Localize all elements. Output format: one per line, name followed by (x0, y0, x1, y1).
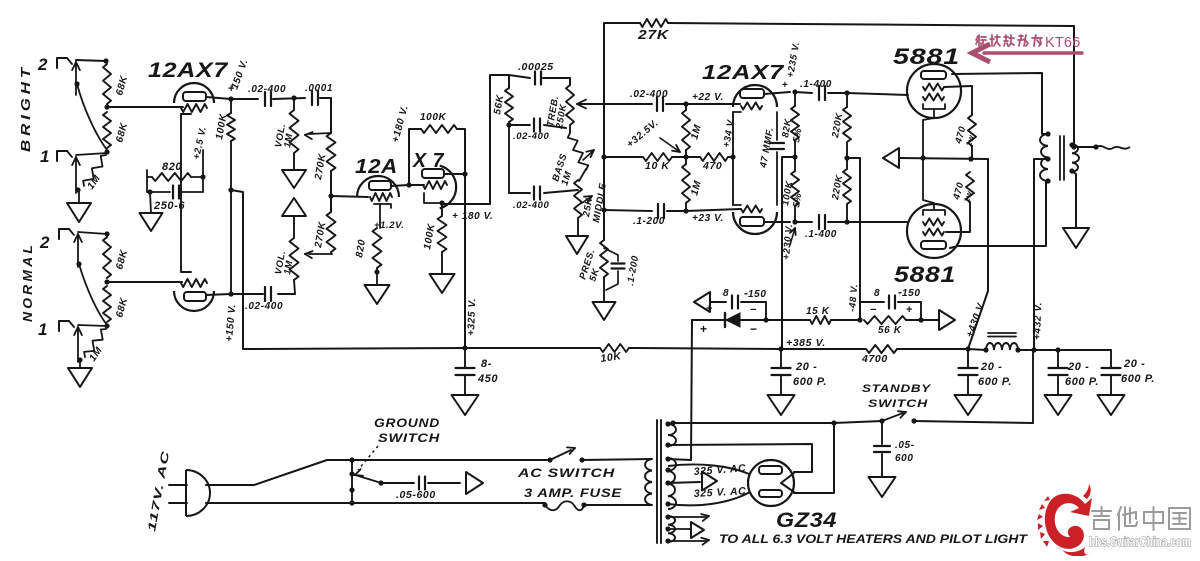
svg-text:600 P.: 600 P. (1065, 376, 1099, 388)
svg-text:.1-400: .1-400 (805, 229, 837, 240)
svg-text:27K: 27K (637, 28, 670, 42)
svg-text:+: + (782, 80, 788, 91)
svg-text:−: − (750, 322, 758, 336)
svg-text:8: 8 (874, 288, 880, 299)
svg-text:.1-200: .1-200 (633, 216, 665, 227)
svg-text:470: 470 (702, 160, 722, 172)
svg-text:150: 150 (748, 289, 767, 300)
svg-text:GZ34: GZ34 (776, 509, 837, 532)
svg-text:+22 V.: +22 V. (692, 92, 724, 103)
svg-text:600: 600 (895, 453, 914, 464)
svg-text:8-: 8- (481, 358, 492, 370)
svg-text:.02-400: .02-400 (513, 131, 550, 142)
svg-text:GROUND: GROUND (374, 418, 440, 430)
svg-text:150: 150 (902, 288, 921, 299)
svg-text:20 -: 20 - (795, 361, 817, 373)
svg-text:1: 1 (40, 147, 50, 166)
svg-text:250-6: 250-6 (153, 200, 185, 212)
svg-text:.02-400: .02-400 (248, 84, 286, 95)
svg-text:TO ALL 6.3 VOLT HEATERS AND PI: TO ALL 6.3 VOLT HEATERS AND PILOT LIGHT (719, 534, 1028, 546)
svg-text:2: 2 (37, 55, 48, 74)
svg-text:600 P.: 600 P. (1121, 373, 1155, 385)
svg-text:−: − (750, 304, 757, 316)
svg-text:1: 1 (38, 320, 48, 339)
svg-text:600 P.: 600 P. (978, 376, 1012, 388)
svg-text:5881: 5881 (894, 262, 956, 287)
svg-text:2: 2 (39, 233, 50, 252)
svg-text:AC SWITCH: AC SWITCH (517, 466, 615, 480)
svg-text:100K: 100K (420, 112, 446, 123)
svg-text:+432 V.: +432 V. (1032, 302, 1044, 340)
svg-text:+385 V.: +385 V. (786, 337, 826, 349)
svg-text:+: + (700, 322, 708, 336)
svg-text:12AX7: 12AX7 (148, 59, 229, 82)
svg-text:+: + (706, 303, 713, 315)
svg-text:600 P.: 600 P. (793, 376, 827, 388)
svg-text:.02-400: .02-400 (513, 200, 550, 211)
svg-text:+23 V.: +23 V. (692, 213, 724, 224)
svg-text:.05-600: .05-600 (396, 489, 436, 501)
svg-text:450: 450 (477, 373, 498, 385)
svg-text:820: 820 (162, 161, 182, 173)
svg-text:+ 180 V.: + 180 V. (452, 211, 493, 222)
svg-text:BRIGHT: BRIGHT (18, 64, 33, 152)
svg-text:56 K: 56 K (878, 325, 902, 336)
svg-text:.02-400: .02-400 (245, 301, 283, 312)
svg-text:20 -: 20 - (1123, 358, 1145, 370)
svg-text:STANDBY: STANDBY (862, 383, 932, 395)
svg-text:12AX7: 12AX7 (702, 62, 784, 84)
svg-text:+325 V.: +325 V. (466, 298, 478, 336)
svg-text:.02-400: .02-400 (630, 89, 668, 100)
svg-text:+1.2V.: +1.2V. (374, 220, 404, 231)
svg-text:+: + (906, 304, 913, 316)
svg-text:.00025: .00025 (518, 61, 554, 73)
svg-text:20 -: 20 - (1067, 361, 1089, 373)
svg-text:.0001: .0001 (305, 83, 333, 94)
svg-text:NORMAL: NORMAL (20, 242, 35, 322)
svg-text:10 K: 10 K (645, 160, 670, 172)
svg-text:3 AMP. FUSE: 3 AMP. FUSE (524, 486, 622, 500)
svg-text:12A: 12A (355, 156, 398, 178)
svg-text:bbs.GuitarChina.com: bbs.GuitarChina.com (1089, 534, 1191, 549)
svg-text:.1-400: .1-400 (800, 79, 832, 90)
svg-text:KT66: KT66 (1045, 35, 1080, 51)
svg-text:.05-: .05- (895, 440, 915, 451)
svg-text:SWITCH: SWITCH (378, 433, 440, 445)
svg-text:−: − (870, 304, 877, 316)
svg-text:4700: 4700 (861, 353, 888, 365)
svg-text:20 -: 20 - (980, 361, 1002, 373)
svg-text:15 K: 15 K (806, 306, 830, 317)
svg-text:SWITCH: SWITCH (868, 398, 929, 410)
svg-text:8: 8 (723, 288, 729, 299)
